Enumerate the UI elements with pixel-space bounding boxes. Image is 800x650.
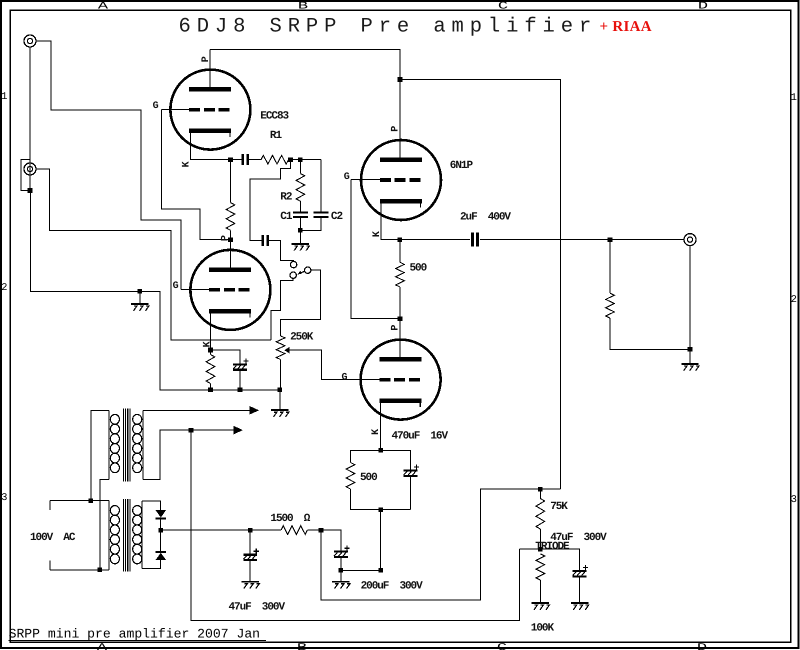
junction bbox=[208, 348, 213, 353]
wire jack3 sleeve bbox=[689, 246, 691, 350]
triode V2a 6N1P upper bbox=[361, 140, 441, 220]
capacitor 200uF 300V bbox=[334, 546, 350, 557]
triode V1b ECC83 lower bbox=[190, 250, 270, 330]
junction bbox=[398, 316, 403, 321]
svg-text:ECC83: ECC83 bbox=[260, 110, 289, 122]
svg-text:1: 1 bbox=[791, 92, 797, 104]
wire to ground bbox=[299, 230, 301, 243]
wire jack2 signal to switch bbox=[36, 169, 271, 340]
wire B+ rail top bbox=[210, 50, 400, 80]
junction bbox=[189, 428, 194, 433]
wire V1a cathode lead bbox=[190, 131, 230, 160]
wire bbox=[340, 557, 342, 570]
wire ground bus to cathode network bbox=[140, 291, 280, 389]
arrow heater lead 1 bbox=[250, 406, 259, 414]
ground input bus bbox=[131, 304, 149, 311]
resistor R2 bbox=[296, 174, 305, 202]
transformer T1 primary bobbin bbox=[108, 410, 110, 479]
resistor 100K bbox=[536, 554, 545, 580]
junction bbox=[538, 547, 543, 552]
wire bbox=[160, 530, 162, 552]
capacitor coupling to switch bbox=[263, 235, 268, 246]
transformer T1 secondary winding bbox=[133, 414, 142, 472]
svg-text:500: 500 bbox=[360, 472, 377, 484]
svg-text:6DJ8 SRPP Pre amplifier: 6DJ8 SRPP Pre amplifier bbox=[179, 15, 598, 38]
capacitor C2 bbox=[313, 213, 328, 218]
triode V2b 6N1P lower bbox=[361, 340, 441, 420]
wire cap to R1 bbox=[248, 159, 261, 161]
svg-text:2: 2 bbox=[1, 282, 7, 294]
svg-text:2uF 400V: 2uF 400V bbox=[460, 212, 511, 224]
wire T1 primary bottom to AC bbox=[100, 480, 109, 570]
resistor 75K bbox=[536, 499, 545, 530]
wire cathode to output cap bbox=[400, 239, 470, 241]
wire to 47uF bbox=[249, 530, 251, 554]
wire V1a plate lead bbox=[209, 50, 211, 90]
wire bbox=[410, 476, 412, 510]
junction bbox=[398, 237, 403, 242]
output jack J3 bbox=[684, 234, 696, 246]
resistor V1a cathode load bbox=[226, 203, 235, 231]
svg-text:2: 2 bbox=[791, 294, 797, 306]
ground 100K bbox=[532, 603, 550, 610]
junction bbox=[28, 188, 33, 193]
wire bbox=[249, 560, 251, 581]
diode D2 bbox=[156, 552, 166, 560]
svg-text:3: 3 bbox=[1, 492, 7, 504]
svg-text:75K: 75K bbox=[550, 501, 568, 513]
switch contact c3 bbox=[305, 267, 311, 273]
wire AC live to primaries bbox=[50, 500, 109, 502]
wire feedback node to coupling cap bbox=[250, 160, 291, 241]
wire to cap bbox=[231, 159, 243, 161]
svg-text:R2: R2 bbox=[280, 192, 292, 204]
resistor 500 V2b cathode bbox=[346, 463, 355, 490]
junction bbox=[138, 289, 143, 294]
wire C2 bottom to junction bbox=[300, 217, 321, 230]
svg-text:+ RIAA: + RIAA bbox=[600, 19, 652, 35]
junction bbox=[278, 388, 283, 393]
capacitor 2uF 400V bbox=[473, 233, 478, 247]
wire V2a plate lead bbox=[399, 80, 401, 160]
resistor 1500 ohm bbox=[281, 526, 307, 535]
footer underline bbox=[9, 640, 266, 642]
wire bbox=[539, 529, 541, 549]
svg-text:K: K bbox=[202, 341, 213, 347]
wire bbox=[399, 240, 401, 263]
resistor V1b cathode bbox=[206, 355, 215, 384]
wire resistor bottom bbox=[351, 489, 411, 510]
junction bbox=[208, 388, 213, 393]
wire V1b plate lead bbox=[230, 240, 232, 270]
junction bbox=[89, 498, 94, 503]
wire V2a cathode lead bbox=[381, 202, 400, 240]
svg-text:A: A bbox=[98, 1, 110, 13]
wire to cathode resistor bbox=[351, 450, 381, 462]
junction bbox=[688, 347, 693, 352]
junction bbox=[228, 237, 233, 242]
wire load bottom bbox=[610, 318, 690, 349]
junction bbox=[378, 568, 383, 573]
junction bbox=[339, 568, 344, 573]
wire to ground bbox=[279, 390, 281, 409]
transformer T1 primary winding bbox=[110, 414, 119, 472]
svg-text:100K: 100K bbox=[531, 622, 555, 634]
wire T1 primary top to AC bbox=[91, 410, 109, 500]
svg-text:6N1P: 6N1P bbox=[450, 160, 474, 172]
ground volume pot bbox=[271, 410, 289, 417]
transformer T2 core bbox=[123, 499, 130, 572]
svg-text:C2: C2 bbox=[331, 211, 343, 223]
ground output jack bbox=[681, 364, 699, 371]
junction bbox=[298, 157, 303, 162]
junction bbox=[288, 157, 293, 162]
svg-text:C: C bbox=[498, 1, 508, 13]
wire switch common to volume pot bbox=[281, 270, 321, 336]
AC terminal stub bbox=[49, 560, 51, 569]
junction bbox=[398, 77, 403, 82]
wire wiper to V2a grid bbox=[289, 350, 379, 379]
wire bbox=[191, 429, 234, 431]
transformer T2 secondary winding bbox=[133, 506, 142, 564]
svg-text:A: A bbox=[97, 642, 109, 650]
wire bbox=[239, 370, 241, 390]
wire down to C2 bbox=[320, 160, 322, 213]
wire bbox=[210, 384, 212, 390]
wire cathode return to ground node bbox=[341, 510, 381, 571]
wire C1 bottom bbox=[299, 217, 301, 230]
capacitor 47uF 300V reservoir bbox=[243, 549, 258, 560]
svg-text:1: 1 bbox=[1, 91, 7, 103]
ground C1 C2 bbox=[292, 244, 310, 251]
wire B+ rail right drop bbox=[400, 80, 561, 490]
switch contact c2 bbox=[290, 272, 296, 278]
wire rectified B+ bbox=[161, 529, 251, 531]
wire D2 to HT secondary bottom bbox=[142, 560, 161, 569]
svg-text:500: 500 bbox=[410, 262, 427, 274]
wire bbox=[230, 160, 232, 203]
wire R1 to C2 branch bbox=[291, 159, 322, 161]
transformer T1 secondary bobbin bbox=[142, 410, 144, 479]
resistor 500 SRPP bbox=[396, 262, 405, 287]
capacitor V1b cathode bypass bbox=[233, 358, 249, 369]
capacitor 470uF 16V bbox=[404, 465, 420, 476]
wire heater reference to TRIODE node bbox=[191, 430, 520, 620]
transformer T2 secondary bobbin bbox=[141, 501, 143, 569]
wire AC neutral to primaries bbox=[50, 569, 109, 571]
wire to bypass cap bbox=[381, 450, 411, 470]
transformer T1 core bbox=[123, 408, 130, 481]
svg-text:SRPP mini pre amplifier 2007 J: SRPP mini pre amplifier 2007 Jan bbox=[9, 627, 260, 642]
wire V2b plate lead bbox=[399, 319, 401, 360]
wire ground bus to ground symbol bbox=[31, 191, 140, 292]
svg-text:47uF 300V: 47uF 300V bbox=[229, 601, 286, 613]
wire bbox=[160, 518, 162, 530]
junction bbox=[319, 528, 324, 533]
junction bbox=[98, 568, 103, 573]
input jack J1 bbox=[24, 35, 36, 47]
wire to bypass cap bbox=[211, 350, 241, 364]
resistor output load bbox=[606, 293, 615, 318]
svg-text:250K: 250K bbox=[290, 332, 314, 344]
wire B+ feed to stage bbox=[321, 489, 561, 600]
wire TRIODE node left bbox=[520, 548, 541, 550]
svg-text:C1: C1 bbox=[280, 211, 293, 223]
input jack J2 bbox=[24, 163, 36, 175]
wire cap to switch contact c1 bbox=[267, 240, 293, 261]
wire staircase to switch contact c2 bbox=[271, 279, 293, 341]
transformer T2 primary winding bbox=[110, 506, 119, 564]
wire to ground bbox=[689, 349, 691, 363]
ground 47uF bbox=[242, 582, 260, 589]
svg-text:D: D bbox=[698, 1, 708, 13]
wire to R2 bbox=[299, 160, 301, 174]
wire bbox=[210, 350, 212, 355]
wire to bypass cap bbox=[540, 549, 579, 571]
capacitor coupling V1a cathode bbox=[243, 154, 248, 165]
wire bbox=[250, 529, 281, 531]
AC terminal stub bbox=[49, 501, 51, 510]
wire ground stub bbox=[139, 291, 141, 303]
svg-text:3: 3 bbox=[791, 494, 797, 506]
wire to ground bbox=[340, 570, 342, 581]
wire bbox=[609, 240, 611, 294]
svg-text:470uF 16V: 470uF 16V bbox=[392, 430, 449, 442]
wire R2 to C1 bbox=[299, 201, 301, 213]
wire jack1 signal to V1b grid bbox=[36, 41, 210, 290]
potentiometer 250K bbox=[276, 336, 285, 360]
wire HT secondary top to D1 bbox=[142, 501, 161, 510]
wire bbox=[399, 287, 401, 319]
wire output line bbox=[480, 239, 684, 241]
junction bbox=[378, 448, 383, 453]
arrow heater lead 2 bbox=[234, 426, 243, 434]
junction bbox=[378, 507, 383, 512]
wire bbox=[579, 576, 581, 602]
junction bbox=[158, 528, 163, 533]
ground 200uF bbox=[332, 582, 350, 589]
switch contact c1 bbox=[290, 261, 296, 267]
wire bbox=[539, 580, 541, 602]
svg-text:200uF 300V: 200uF 300V bbox=[361, 581, 424, 593]
ground bypass cap bbox=[571, 603, 589, 610]
wire heater 1 bbox=[143, 409, 250, 411]
junction bbox=[538, 487, 543, 492]
junction bbox=[608, 237, 613, 242]
wire V1b cathode lead bbox=[210, 314, 212, 350]
wire heater 2 bbox=[143, 430, 191, 480]
junction bbox=[228, 157, 233, 162]
svg-text:TRIODE: TRIODE bbox=[535, 541, 570, 553]
svg-text:D: D bbox=[697, 642, 707, 650]
junction bbox=[248, 528, 253, 533]
wire pot bottom bbox=[280, 360, 282, 390]
wire bbox=[289, 159, 291, 161]
capacitor C1 bbox=[293, 213, 308, 218]
wire bbox=[539, 489, 541, 498]
resistor R1 bbox=[261, 155, 289, 164]
wire V2a grid to V2b plate (SRPP) bbox=[351, 179, 400, 318]
diode D1 bbox=[156, 510, 166, 518]
wire bbox=[307, 529, 321, 531]
potentiometer wiper arrow bbox=[284, 347, 289, 354]
wire V2b cathode lead bbox=[379, 403, 381, 451]
wire bbox=[230, 230, 232, 239]
junction bbox=[238, 388, 243, 393]
junction bbox=[298, 228, 303, 233]
switch arm bbox=[297, 271, 305, 275]
transformer T2 primary bobbin bbox=[108, 501, 110, 570]
svg-text:R1: R1 bbox=[270, 130, 283, 142]
svg-text:C: C bbox=[497, 642, 507, 650]
wire V1a grid to V1b plate (SRPP) bbox=[162, 110, 229, 240]
wire to 200uF bbox=[321, 530, 341, 551]
svg-text:K: K bbox=[181, 161, 192, 167]
wire jack1 ground to jack2 shield bbox=[21, 47, 31, 191]
capacitor 47uF 300V bypass bbox=[573, 565, 589, 576]
svg-text:100V AC: 100V AC bbox=[30, 532, 76, 544]
svg-text:B: B bbox=[298, 1, 308, 13]
svg-text:B: B bbox=[297, 642, 307, 650]
svg-text:1500 Ω: 1500 Ω bbox=[270, 513, 310, 525]
triode V1a ECC83 upper bbox=[170, 70, 250, 150]
